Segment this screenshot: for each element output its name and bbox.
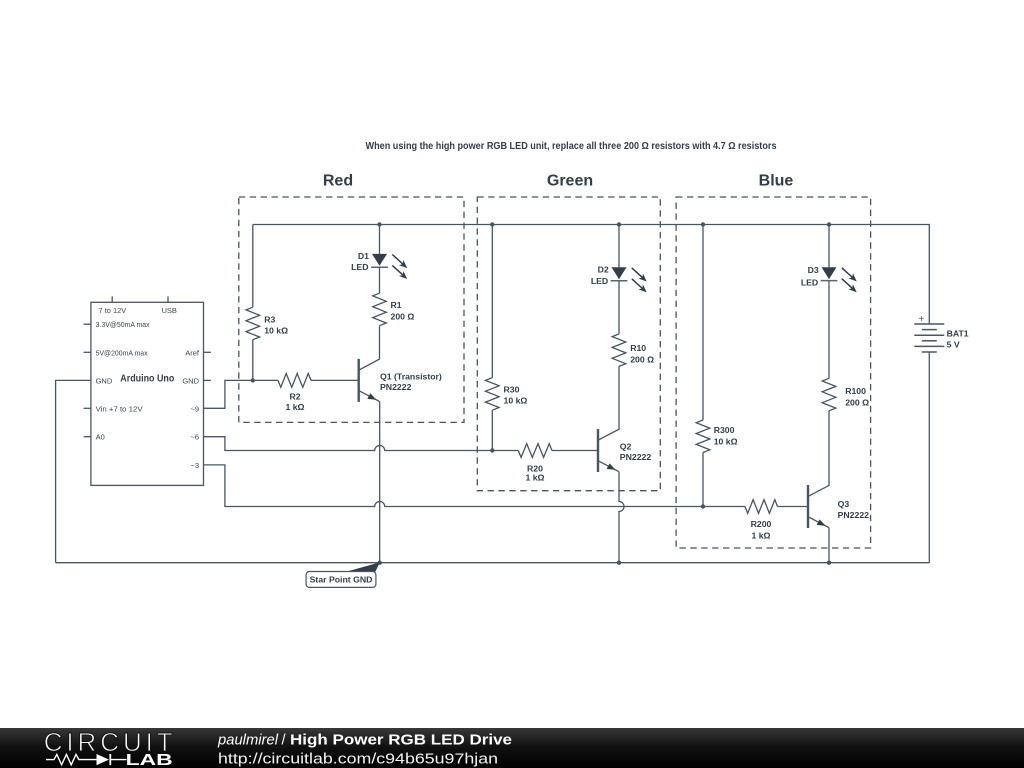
svg-text:http://circuitlab.com/c94b65u9: http://circuitlab.com/c94b65u97hjan [218, 751, 498, 768]
wire Q1 emitter to ground rail [379, 402, 381, 563]
resistor R3 [246, 307, 260, 340]
pin Vin left [84, 407, 91, 409]
svg-text:5 V: 5 V [947, 339, 960, 349]
svg-text:R300: R300 [714, 425, 735, 435]
svg-text:7 to 12V: 7 to 12V [99, 306, 127, 315]
wire R3 upper branch [252, 225, 254, 308]
svg-text:10 kΩ: 10 kΩ [714, 437, 738, 447]
svg-text:200 Ω: 200 Ω [630, 355, 654, 365]
wire D1 cathode to R1 [379, 267, 381, 293]
node D1 top rail junction [377, 222, 381, 226]
svg-text:~9: ~9 [190, 404, 199, 413]
svg-text:200 Ω: 200 Ω [391, 312, 415, 322]
wire Q2 emitter to ground rail with hop [619, 472, 624, 563]
wire battery negative to ground rail [928, 352, 930, 563]
svg-text:BAT1: BAT1 [947, 329, 969, 339]
svg-text:PN2222: PN2222 [380, 382, 412, 392]
wire R30 lower branch [491, 410, 493, 450]
resistor R300 [696, 420, 710, 453]
node R3/base junction [251, 378, 255, 382]
pin 5V left [84, 351, 91, 353]
svg-text:D1: D1 [358, 251, 369, 261]
svg-text:High Power RGB LED Drive: High Power RGB LED Drive [290, 732, 512, 749]
wire R100 to Q3 collector [808, 411, 829, 497]
CircuitLab logo resistor-diode glyph [46, 754, 127, 765]
wire pin ~3 to R200 with hop [204, 465, 746, 507]
resistor R10 [612, 334, 626, 367]
wire R1 to Q1 collector [359, 326, 380, 371]
svg-text:D3: D3 [808, 265, 819, 275]
svg-text:Q2: Q2 [620, 441, 632, 451]
wire R10 to Q2 collector [598, 366, 619, 440]
wire top supply rail to battery [253, 225, 930, 325]
svg-text:PN2222: PN2222 [620, 452, 652, 462]
wire R2 to Q1 base [311, 379, 359, 381]
svg-text:GND: GND [96, 376, 113, 385]
svg-text:3.3V@50mA max: 3.3V@50mA max [96, 320, 150, 329]
svg-text:LED: LED [351, 262, 368, 272]
svg-text:LED: LED [591, 276, 608, 286]
node D2 top rail junction [617, 222, 621, 226]
dashed box Green section [477, 197, 660, 491]
node R30/R20 junction [490, 448, 494, 452]
wire D2 anode branch [618, 225, 620, 268]
footer bar [0, 728, 1024, 768]
svg-text:Green: Green [547, 173, 593, 190]
svg-text:paulmirel: paulmirel [217, 733, 279, 749]
svg-text:Q1 (Transistor): Q1 (Transistor) [380, 372, 442, 382]
dashed box Red section [239, 197, 464, 422]
transistor Q1 [359, 359, 380, 402]
wire pin ~6 to R20 with hop [204, 437, 519, 451]
svg-text:1 kΩ: 1 kΩ [285, 402, 304, 412]
pin USB top [167, 296, 169, 302]
wire D2 cathode to R10 [618, 281, 620, 334]
resistor R20 [518, 444, 552, 458]
LED D2 [611, 267, 647, 292]
node Q3 emitter ground junction [827, 561, 831, 565]
svg-text:Aref: Aref [185, 348, 200, 357]
svg-text:5V@200mA max: 5V@200mA max [96, 348, 148, 357]
node R30 top rail junction [490, 222, 494, 226]
svg-text:200 Ω: 200 Ω [845, 398, 869, 408]
pin 3.3V left [84, 323, 91, 325]
svg-text:PN2222: PN2222 [838, 510, 870, 520]
wire D3 cathode to R100 [828, 281, 830, 379]
wire Q3 emitter to ground rail [828, 528, 830, 563]
resistor R200 [745, 500, 778, 514]
svg-text:Arduino Uno: Arduino Uno [120, 374, 174, 385]
node R300/R200 junction [701, 504, 705, 508]
svg-text:Red: Red [323, 173, 353, 190]
svg-text:Q3: Q3 [838, 499, 850, 509]
svg-text:LAB: LAB [126, 752, 173, 768]
svg-text:R200: R200 [751, 519, 772, 529]
svg-text:+: + [918, 314, 924, 325]
pin GND right [204, 379, 211, 381]
svg-text:Star Point GND: Star Point GND [310, 574, 373, 584]
node D3 top rail junction [827, 222, 831, 226]
wire R200 to Q3 base [778, 506, 809, 508]
pin 7to12V top [111, 296, 113, 302]
wire pin ~9 to node [204, 380, 279, 408]
battery BAT1 [914, 324, 944, 352]
wire Arduino GND to left rail [56, 380, 91, 562]
LED D1 [371, 254, 407, 279]
wire R300 upper branch [702, 225, 704, 421]
svg-text:When using the high power RGB: When using the high power RGB LED unit, … [366, 140, 777, 152]
resistor R30 [486, 378, 500, 411]
LED D3 [821, 267, 857, 292]
wire D1 anode branch [379, 225, 381, 254]
pin A0 left [84, 436, 91, 438]
pin Aref right [204, 351, 211, 353]
wire R20 to Q2 base [552, 450, 598, 452]
dashed box Blue section [676, 197, 871, 548]
svg-text:~6: ~6 [190, 433, 199, 442]
svg-text:10 kΩ: 10 kΩ [504, 396, 528, 406]
svg-text:1 kΩ: 1 kΩ [751, 530, 770, 540]
wire R300 lower branch [702, 453, 704, 507]
svg-text:1 kΩ: 1 kΩ [525, 472, 544, 482]
svg-text:Vin +7 to 12V: Vin +7 to 12V [96, 404, 143, 413]
svg-text:R10: R10 [630, 343, 646, 353]
svg-text:Blue: Blue [759, 173, 794, 190]
svg-text:R2: R2 [289, 391, 300, 401]
svg-text:R1: R1 [391, 300, 402, 310]
svg-text:~3: ~3 [190, 461, 199, 470]
svg-text:USB: USB [162, 306, 177, 315]
wire R30 upper branch [491, 225, 493, 378]
wire ground rail [56, 562, 930, 564]
node R300 top rail junction [701, 222, 705, 226]
resistor R1 [373, 293, 387, 326]
wire R3 lower branch [252, 340, 254, 381]
svg-text:A0: A0 [96, 433, 105, 442]
resistor R100 [822, 378, 836, 411]
svg-text:R100: R100 [845, 386, 866, 396]
node Q1 emitter ground junction [378, 561, 382, 565]
node Star Point GND flag [306, 562, 380, 587]
Arduino Uno U1 [84, 296, 211, 485]
svg-text:10 kΩ: 10 kΩ [264, 326, 288, 336]
resistor R2 [278, 374, 311, 388]
transistor Q3 [808, 485, 829, 528]
node Q2 emitter ground junction [617, 561, 621, 565]
svg-text:GND: GND [182, 376, 199, 385]
svg-text:R3: R3 [264, 314, 275, 324]
svg-text:R30: R30 [504, 384, 520, 394]
svg-text:LED: LED [801, 277, 818, 287]
svg-text:D2: D2 [598, 265, 609, 275]
wire D3 anode branch [828, 225, 830, 268]
transistor Q2 [598, 429, 619, 472]
